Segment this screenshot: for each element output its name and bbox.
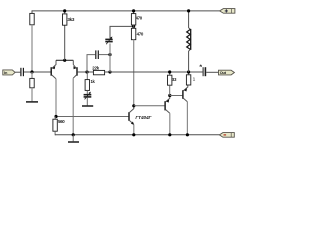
node R9 / mid rail (168, 70, 171, 73)
wire trimmer column (mid rail node up to divider tap) (109, 44, 111, 73)
svg-text:470: 470 (137, 31, 144, 36)
transistor Q1 (left PNP of pair) (51, 60, 56, 79)
wire R10 top to mid rail node (188, 72, 190, 75)
inductor L1 (187, 11, 191, 72)
node bottom rail / Q2 collector / ground (72, 133, 75, 136)
capacitor VC1 trimmer (105, 37, 112, 45)
label 4 (output cap value mark) (200, 65, 202, 67)
node Q3 collector junction (132, 104, 135, 107)
ground GND3 (68, 141, 79, 143)
resistor R1 (upper bias, unlabeled) (30, 13, 34, 24)
wire C4 to ground (86, 98, 88, 106)
wire top supply rail (32, 10, 220, 12)
wire Q2 collector down to bottom rail (72, 78, 74, 135)
node rail-R4 (132, 9, 135, 12)
node Q2 base junction (85, 70, 88, 73)
resistor R6 22k (feedback, horizontal) (93, 70, 104, 74)
wire between divider resistors (133, 25, 135, 28)
wire node to Q5 base (170, 95, 183, 97)
wire Q3 emitter to bottom rail (133, 124, 135, 134)
node input bias junction (30, 70, 33, 73)
transistor Q4 (PNP driver) (165, 96, 170, 114)
wire bottom rail (55, 134, 220, 136)
node divider tap (132, 25, 135, 28)
node R6/trimmer column on mid rail (108, 70, 111, 73)
wire R5 bottom down to Q3 collector node (crosses mid rail) (133, 40, 135, 106)
wire C1 to Q1 base (24, 71, 51, 73)
node coil / R10 / output on mid rail (187, 70, 190, 73)
node Q1 collector / R8 junction (54, 115, 57, 118)
svg-text:In: In (4, 70, 8, 75)
node Q4 emitter / R9 / Q5 base (168, 94, 171, 97)
transistor Q5 (PNP output) (183, 85, 188, 102)
resistor R2 (lower bias, unlabeled) (30, 78, 34, 87)
node C2/trimmer column (108, 53, 111, 56)
node Q3 emitter / bottom rail (132, 133, 135, 136)
wire trimmer top to divider tap (110, 26, 134, 38)
wire R7 branch down from Q2 base node (86, 72, 88, 80)
wire R8 bottom to bottom rail (54, 131, 57, 135)
capacitor C4 (trimmer to ground) (84, 92, 92, 100)
svg-text:1: 1 (193, 77, 196, 83)
wire R2 to ground (31, 88, 33, 102)
wire In connector to C1 (15, 71, 20, 73)
node rail-R3 (63, 9, 66, 12)
resistor R5 470 (lower divider) (131, 28, 135, 39)
ground GND3 stub (72, 135, 74, 142)
wire node to R8 (54, 117, 56, 120)
wire R1 bottom to input node (31, 25, 33, 72)
wire R6 right to node (105, 71, 110, 73)
ground GND1 (26, 101, 38, 103)
wire Q5 collector to bottom rail (186, 102, 188, 135)
wire C5 to Out connector (206, 71, 218, 73)
svg-text:3k3: 3k3 (67, 17, 75, 22)
wire node to R2 (31, 72, 33, 78)
capacitor C5 (output) (203, 67, 205, 76)
capacitor C2 (feedback) (96, 50, 99, 59)
svg-text:560: 560 (58, 119, 65, 124)
capacitor C1 (input coupling) (21, 68, 24, 76)
transistor Q2 (right PNP of pair) (73, 60, 77, 78)
connector X2 plus supply (220, 9, 235, 14)
svg-text:22k: 22k (92, 66, 99, 71)
wire Q1 collector down to feedback node (55, 79, 57, 117)
wire Q3 collector to Q4 base (134, 105, 165, 107)
wire tail up to R3 (64, 25, 66, 60)
wire R7 to C4 (86, 90, 88, 94)
node emitter tail junction (63, 59, 66, 62)
wire R9 bottom to Q4 emitter node (169, 85, 171, 95)
ground GND2 (82, 105, 93, 107)
resistor R4 470 (upper divider) (131, 14, 135, 25)
wire Q4 collector to bottom rail (169, 113, 171, 135)
wire emitter bus of pair (56, 59, 73, 61)
connector X3 Out (219, 70, 235, 75)
connector X4 minus supply (219, 133, 234, 138)
wire rail to R4 (133, 11, 135, 14)
wire feedback cap branch (up-left from Q2 base node) (87, 55, 95, 72)
resistor R9 33 (168, 75, 172, 85)
wire Q2 base to node (78, 71, 94, 73)
resistor R8 560 (53, 119, 57, 131)
connector X1 In (3, 70, 15, 75)
svg-text:470: 470 (136, 15, 143, 20)
svg-text:ГТ404Г: ГТ404Г (135, 115, 152, 121)
node Q4 collector / bottom rail (168, 133, 171, 136)
resistor R3 3k3 (tail) (63, 14, 67, 25)
node rail / coil top (187, 9, 190, 12)
wire R3 top to rail (64, 11, 66, 14)
wire C2 right to trimmer column (99, 54, 110, 56)
node Q5 collector / bottom rail (186, 133, 189, 136)
wire Q1 base line y116 (collector node to Q3 base) (56, 116, 128, 118)
wire mid rail (feedback node to output cap) (110, 71, 203, 73)
wire R9 top to mid rail (169, 72, 171, 75)
resistor R7 1k (85, 80, 89, 91)
resistor R10 1 (emitter) (186, 75, 190, 85)
transistor Q3 GT404G (NPN) (129, 106, 134, 125)
wire left bias column top (rail corner to R1) (31, 10, 33, 13)
svg-text:Out: Out (220, 70, 227, 75)
